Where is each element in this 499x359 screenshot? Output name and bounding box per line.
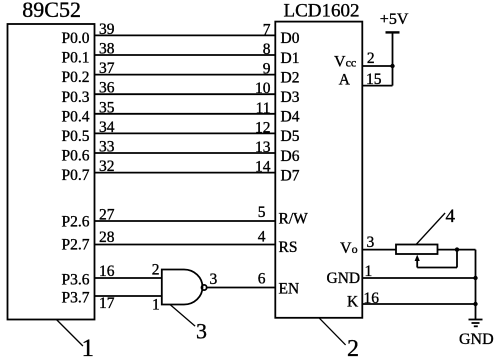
svg-text:6: 6 bbox=[258, 270, 266, 287]
svg-text:P0.5: P0.5 bbox=[62, 128, 90, 145]
svg-text:Vo: Vo bbox=[340, 240, 358, 257]
svg-text:39: 39 bbox=[99, 21, 115, 38]
junction node GND rail bbox=[473, 276, 477, 280]
wire P0.0 to D0 bbox=[95, 34, 276, 36]
svg-text:4: 4 bbox=[446, 206, 456, 227]
svg-text:A: A bbox=[339, 71, 351, 88]
svg-text:D7: D7 bbox=[281, 167, 300, 184]
svg-text:P3.7: P3.7 bbox=[62, 290, 90, 307]
svg-text:4: 4 bbox=[258, 229, 266, 246]
wire P0.1 to D1 bbox=[95, 54, 276, 56]
svg-text:K: K bbox=[347, 294, 359, 311]
svg-text:D6: D6 bbox=[281, 148, 300, 165]
svg-text:RS: RS bbox=[279, 239, 298, 256]
svg-text:D1: D1 bbox=[281, 50, 300, 67]
NAND gate U3 output bubble bbox=[202, 285, 207, 290]
svg-text:1: 1 bbox=[365, 263, 373, 280]
wire NAND output to EN bbox=[207, 287, 276, 289]
LCD U2 LCD1602 box bbox=[275, 22, 362, 318]
svg-text:37: 37 bbox=[99, 60, 115, 77]
potentiometer R1 body bbox=[396, 245, 438, 255]
wire P2.7 to RS bbox=[95, 244, 276, 246]
svg-text:10: 10 bbox=[255, 80, 271, 97]
svg-text:2: 2 bbox=[367, 50, 375, 67]
ground symbol bar 3 bbox=[474, 325, 478, 327]
svg-text:17: 17 bbox=[99, 295, 115, 312]
svg-text:15: 15 bbox=[366, 71, 382, 88]
svg-text:11: 11 bbox=[256, 100, 271, 117]
svg-text:Vcc: Vcc bbox=[334, 54, 356, 71]
junction node Vcc/A bbox=[390, 64, 394, 68]
svg-text:9: 9 bbox=[263, 61, 271, 78]
svg-text:P0.3: P0.3 bbox=[62, 89, 90, 106]
svg-text:14: 14 bbox=[255, 159, 271, 176]
svg-text:2: 2 bbox=[152, 261, 160, 278]
wire P0.7 to D7 bbox=[95, 172, 276, 174]
svg-text:3: 3 bbox=[367, 234, 375, 251]
wire P3.7 to NAND input 1 bbox=[95, 295, 162, 297]
svg-text:GND: GND bbox=[327, 270, 361, 287]
wire wiper loop riser bbox=[456, 250, 458, 268]
svg-text:33: 33 bbox=[99, 139, 115, 156]
svg-text:28: 28 bbox=[99, 229, 115, 246]
svg-text:P0.0: P0.0 bbox=[62, 30, 90, 47]
svg-text:P0.1: P0.1 bbox=[62, 50, 90, 67]
wire +5V stem to Vcc bbox=[392, 32, 394, 66]
wire P0.2 to D2 bbox=[95, 74, 276, 76]
wire P3.6 to NAND input 2 bbox=[95, 277, 162, 279]
svg-text:35: 35 bbox=[99, 99, 115, 116]
wire LCD pin1 GND bbox=[362, 277, 475, 279]
callout line 1 to 89C52 bbox=[56, 320, 83, 347]
svg-text:D3: D3 bbox=[281, 89, 300, 106]
svg-text:D4: D4 bbox=[281, 109, 300, 126]
svg-text:16: 16 bbox=[99, 263, 115, 280]
junction node K rail bbox=[473, 302, 477, 306]
wire P0.6 to D6 bbox=[95, 152, 276, 154]
wire LCD pin16 K bbox=[362, 303, 475, 305]
svg-text:D2: D2 bbox=[281, 69, 300, 86]
svg-text:13: 13 bbox=[255, 139, 271, 156]
svg-text:+5V: +5V bbox=[380, 11, 409, 28]
ground symbol bar 2 bbox=[472, 322, 480, 324]
svg-text:89C52: 89C52 bbox=[22, 0, 81, 22]
svg-text:32: 32 bbox=[99, 158, 115, 175]
svg-text:34: 34 bbox=[99, 119, 115, 136]
svg-text:7: 7 bbox=[263, 21, 271, 38]
svg-text:12: 12 bbox=[255, 119, 271, 136]
svg-text:P2.7: P2.7 bbox=[62, 237, 90, 254]
svg-text:D0: D0 bbox=[281, 30, 300, 47]
wire P0.4 to D4 bbox=[95, 113, 276, 115]
potentiometer wiper arrow bbox=[416, 258, 418, 268]
wire LCD pin2 Vcc bbox=[362, 65, 392, 67]
svg-text:P0.4: P0.4 bbox=[62, 108, 90, 125]
svg-text:D5: D5 bbox=[281, 128, 300, 145]
svg-text:R/W: R/W bbox=[279, 211, 309, 228]
wire P0.5 to D5 bbox=[95, 132, 276, 134]
svg-text:GND: GND bbox=[459, 331, 494, 348]
svg-text:3: 3 bbox=[196, 319, 207, 344]
wire pin15 riser bbox=[392, 66, 394, 86]
junction node wiper/Vo bbox=[455, 247, 459, 251]
wire wiper loop horizontal bbox=[417, 267, 457, 269]
MCU U1 89C52 box bbox=[8, 24, 95, 320]
svg-text:38: 38 bbox=[99, 41, 115, 58]
svg-text:1: 1 bbox=[82, 335, 95, 359]
wire ground rail vertical bbox=[475, 250, 477, 320]
svg-text:16: 16 bbox=[364, 290, 380, 307]
wire LCD pin3 Vo to potentiometer bbox=[362, 249, 396, 251]
NAND gate U3 body bbox=[162, 270, 203, 305]
ground symbol bar 1 bbox=[469, 319, 483, 321]
wire LCD pin15 A bbox=[362, 85, 392, 87]
svg-text:P3.6: P3.6 bbox=[62, 272, 90, 289]
svg-text:P0.6: P0.6 bbox=[62, 148, 90, 165]
svg-text:2: 2 bbox=[347, 336, 359, 359]
svg-text:P0.2: P0.2 bbox=[62, 69, 90, 86]
wire P2.6 to R/W bbox=[95, 220, 276, 222]
wire potentiometer right to rail bbox=[438, 249, 476, 251]
svg-text:3: 3 bbox=[210, 271, 218, 288]
svg-text:1: 1 bbox=[152, 297, 160, 314]
svg-text:P0.7: P0.7 bbox=[62, 167, 90, 184]
svg-text:5: 5 bbox=[258, 204, 266, 221]
svg-text:27: 27 bbox=[99, 207, 115, 224]
callout line 4 to potentiometer bbox=[416, 213, 445, 245]
callout line 3 to NAND bbox=[170, 305, 195, 327]
svg-text:P2.6: P2.6 bbox=[62, 214, 90, 231]
svg-text:36: 36 bbox=[99, 80, 115, 97]
callout line 2 to LCD1602 bbox=[319, 318, 346, 345]
svg-text:LCD1602: LCD1602 bbox=[284, 1, 360, 22]
svg-text:8: 8 bbox=[263, 41, 271, 58]
+5V supply bar bbox=[386, 31, 400, 33]
wire P0.3 to D3 bbox=[95, 93, 276, 95]
svg-text:EN: EN bbox=[279, 281, 300, 298]
